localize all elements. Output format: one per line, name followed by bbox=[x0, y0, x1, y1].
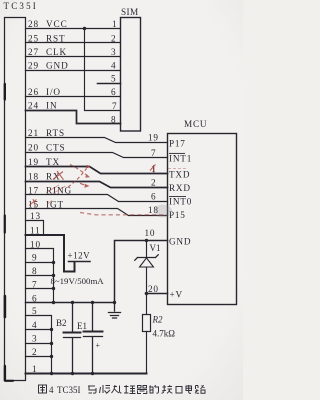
wire SIM pin 5 stub bbox=[98, 83, 121, 85]
wire IGT 15 to MCU P15 bbox=[26, 209, 168, 216]
svg-text:28: 28 bbox=[28, 19, 39, 29]
hanzi qi (device) bbox=[137, 386, 147, 394]
component value labels bbox=[51, 243, 176, 350]
svg-text:25: 25 bbox=[28, 33, 39, 43]
svg-text:I/O: I/O bbox=[46, 87, 61, 97]
svg-text:4.7kΩ: 4.7kΩ bbox=[153, 329, 176, 339]
svg-text:INT0: INT0 bbox=[169, 197, 192, 207]
red scribble over pin 15 bbox=[29, 199, 37, 207]
wire pin 5 bbox=[26, 316, 52, 374]
svg-text:10: 10 bbox=[30, 239, 41, 249]
svg-text:8~19V/500mA: 8~19V/500mA bbox=[51, 276, 105, 286]
svg-text:9: 9 bbox=[32, 253, 38, 263]
caption: fig 4 TC35I interface circuit (hanzi drawn as strokes) bbox=[39, 385, 206, 395]
svg-text:10: 10 bbox=[145, 228, 156, 238]
hanzi wei (micro) bbox=[100, 385, 111, 394]
red scribble over RX label bbox=[53, 171, 64, 180]
wire I/O 26 to SIM 6 bbox=[26, 96, 121, 98]
connector SIM body bbox=[121, 18, 141, 132]
red mark over MCU pin 1 bbox=[150, 165, 156, 173]
svg-text:MCU: MCU bbox=[184, 119, 207, 129]
svg-text:4: 4 bbox=[32, 320, 38, 330]
text labels: SIM connector bbox=[111, 7, 139, 124]
svg-text:18: 18 bbox=[28, 172, 39, 182]
wire SIM pin 7 to VCC net bbox=[85, 29, 121, 111]
svg-text:8: 8 bbox=[111, 114, 116, 124]
svg-text:1: 1 bbox=[32, 364, 38, 374]
svg-text:E1: E1 bbox=[77, 321, 87, 331]
svg-text:R2: R2 bbox=[152, 315, 163, 325]
hanzi lu (road) bbox=[195, 385, 205, 393]
svg-text:TXD: TXD bbox=[169, 170, 190, 180]
gray smudge near P15 bbox=[154, 205, 172, 218]
wire RX 18 to MCU RXD bbox=[26, 182, 168, 188]
wire VCC 28 to SIM 1 bbox=[26, 28, 121, 30]
red dashed line over P15 wire bbox=[80, 213, 167, 215]
text labels: MCU bbox=[145, 119, 208, 300]
hanzi de (of) bbox=[150, 385, 159, 393]
red pen annotations bbox=[29, 165, 188, 215]
wire CTS 20 to MCU INT1 bbox=[26, 153, 168, 158]
wire pin 7 bbox=[26, 288, 54, 290]
capacitor E1 bbox=[84, 303, 103, 374]
svg-text:TC35I: TC35I bbox=[57, 385, 81, 395]
wire IN 24 to SIM 8 bbox=[26, 111, 121, 124]
svg-text:8: 8 bbox=[32, 266, 38, 276]
svg-text:5: 5 bbox=[111, 74, 116, 84]
text labels: TC35I chip bbox=[4, 1, 73, 374]
wire MCU +V pin 20 bbox=[146, 293, 168, 295]
wire pin 1 / battery bus to R2 bbox=[26, 373, 147, 375]
scan ink thickening on chip body edge bbox=[5, 84, 13, 381]
svg-text:7: 7 bbox=[151, 148, 156, 158]
hanzi tu (figure) bbox=[39, 385, 47, 393]
svg-text:19: 19 bbox=[28, 157, 39, 167]
hanzi dian (electric) bbox=[186, 385, 192, 393]
svg-text:7: 7 bbox=[112, 101, 117, 111]
hanzi jie (interface) bbox=[162, 385, 173, 393]
wire pin 6 / GND net to MCU pin 10 bbox=[26, 241, 168, 303]
svg-text:+12V: +12V bbox=[68, 251, 91, 261]
hanzi chu (process) bbox=[112, 385, 122, 393]
svg-text:CLK: CLK bbox=[46, 47, 67, 57]
svg-text:21: 21 bbox=[28, 128, 39, 138]
wire RING 17 to MCU INT0 bbox=[26, 195, 168, 202]
svg-text:+V: +V bbox=[170, 290, 183, 300]
svg-text:11: 11 bbox=[30, 226, 41, 236]
svg-text:6: 6 bbox=[111, 87, 116, 97]
wire pin 4 bbox=[26, 329, 52, 331]
hanzi li (manage) bbox=[124, 385, 136, 394]
wire GND 29 to SIM 4 bbox=[26, 70, 121, 72]
wire CLK 27 to SIM 3 bbox=[26, 56, 121, 58]
svg-text:3: 3 bbox=[32, 334, 38, 344]
red dashes around TXD bbox=[168, 168, 188, 170]
svg-text:IGT: IGT bbox=[46, 200, 64, 210]
svg-text:SIM: SIM bbox=[121, 7, 139, 17]
wire pin 13 down to pin 11 net bbox=[26, 221, 44, 236]
svg-text:5: 5 bbox=[32, 306, 38, 316]
red cross annotation over TX/RX wires bbox=[70, 165, 87, 176]
svg-text:29: 29 bbox=[28, 61, 39, 71]
svg-text:4: 4 bbox=[49, 385, 54, 395]
svg-text:27: 27 bbox=[28, 47, 39, 57]
svg-text:INT1: INT1 bbox=[169, 154, 192, 164]
wire RTS 21 to MCU P17 bbox=[26, 138, 168, 143]
svg-text:TC35I: TC35I bbox=[4, 1, 39, 11]
svg-text:RST: RST bbox=[46, 33, 66, 43]
svg-text:6: 6 bbox=[151, 191, 156, 201]
wire pin 2 bbox=[26, 356, 52, 358]
IC MCU body bbox=[168, 134, 237, 305]
svg-text:2: 2 bbox=[32, 347, 38, 357]
node junction VCC/SIM7 bbox=[83, 27, 86, 30]
svg-text:17: 17 bbox=[28, 185, 39, 195]
svg-text:24: 24 bbox=[28, 101, 39, 111]
svg-text:IN: IN bbox=[46, 101, 58, 111]
svg-text:6: 6 bbox=[32, 293, 38, 303]
wire RST 25 to SIM 2 bbox=[26, 42, 121, 44]
ground symbol bbox=[109, 303, 121, 319]
red scribble over RING label bbox=[46, 185, 66, 194]
hanzi yu (with) bbox=[88, 386, 96, 393]
svg-text:19: 19 bbox=[148, 133, 159, 143]
svg-text:VCC: VCC bbox=[46, 19, 68, 29]
svg-text:13: 13 bbox=[30, 211, 41, 221]
wire pin 11 to +12V tap bbox=[26, 235, 75, 272]
diode V1 zener bbox=[146, 241, 148, 258]
svg-text:20: 20 bbox=[28, 143, 39, 153]
wire pin 3 bbox=[26, 343, 52, 345]
IC TC35I body bbox=[5, 18, 26, 381]
svg-text:P17: P17 bbox=[169, 139, 186, 149]
wire TX 19 to MCU TXD bbox=[26, 167, 168, 174]
svg-text:+: + bbox=[96, 341, 101, 350]
svg-text:1: 1 bbox=[112, 19, 117, 29]
svg-text:3: 3 bbox=[111, 47, 116, 57]
svg-text:2: 2 bbox=[111, 33, 116, 43]
svg-text:GND: GND bbox=[46, 61, 69, 71]
svg-text:GND: GND bbox=[169, 237, 191, 247]
svg-text:7: 7 bbox=[32, 280, 38, 290]
svg-text:B2: B2 bbox=[56, 318, 67, 328]
hanzi kou (mouth) bbox=[176, 387, 182, 394]
svg-text:RXD: RXD bbox=[169, 183, 191, 193]
capacitor B2 bbox=[64, 303, 81, 374]
wire pin 10 bbox=[26, 249, 54, 303]
svg-text:2: 2 bbox=[151, 178, 156, 188]
svg-text:RTS: RTS bbox=[46, 128, 65, 138]
svg-text:CTS: CTS bbox=[46, 143, 66, 153]
power +12V symbol bar bbox=[69, 261, 91, 263]
svg-text:V1: V1 bbox=[150, 243, 161, 253]
svg-text:4: 4 bbox=[111, 61, 116, 71]
wire pin 9 bbox=[26, 262, 54, 264]
svg-text:TX: TX bbox=[46, 157, 60, 167]
resistor R2 bbox=[146, 294, 148, 374]
svg-text:20: 20 bbox=[148, 284, 159, 294]
svg-text:26: 26 bbox=[28, 87, 39, 97]
wire pin 8 bbox=[26, 275, 54, 277]
